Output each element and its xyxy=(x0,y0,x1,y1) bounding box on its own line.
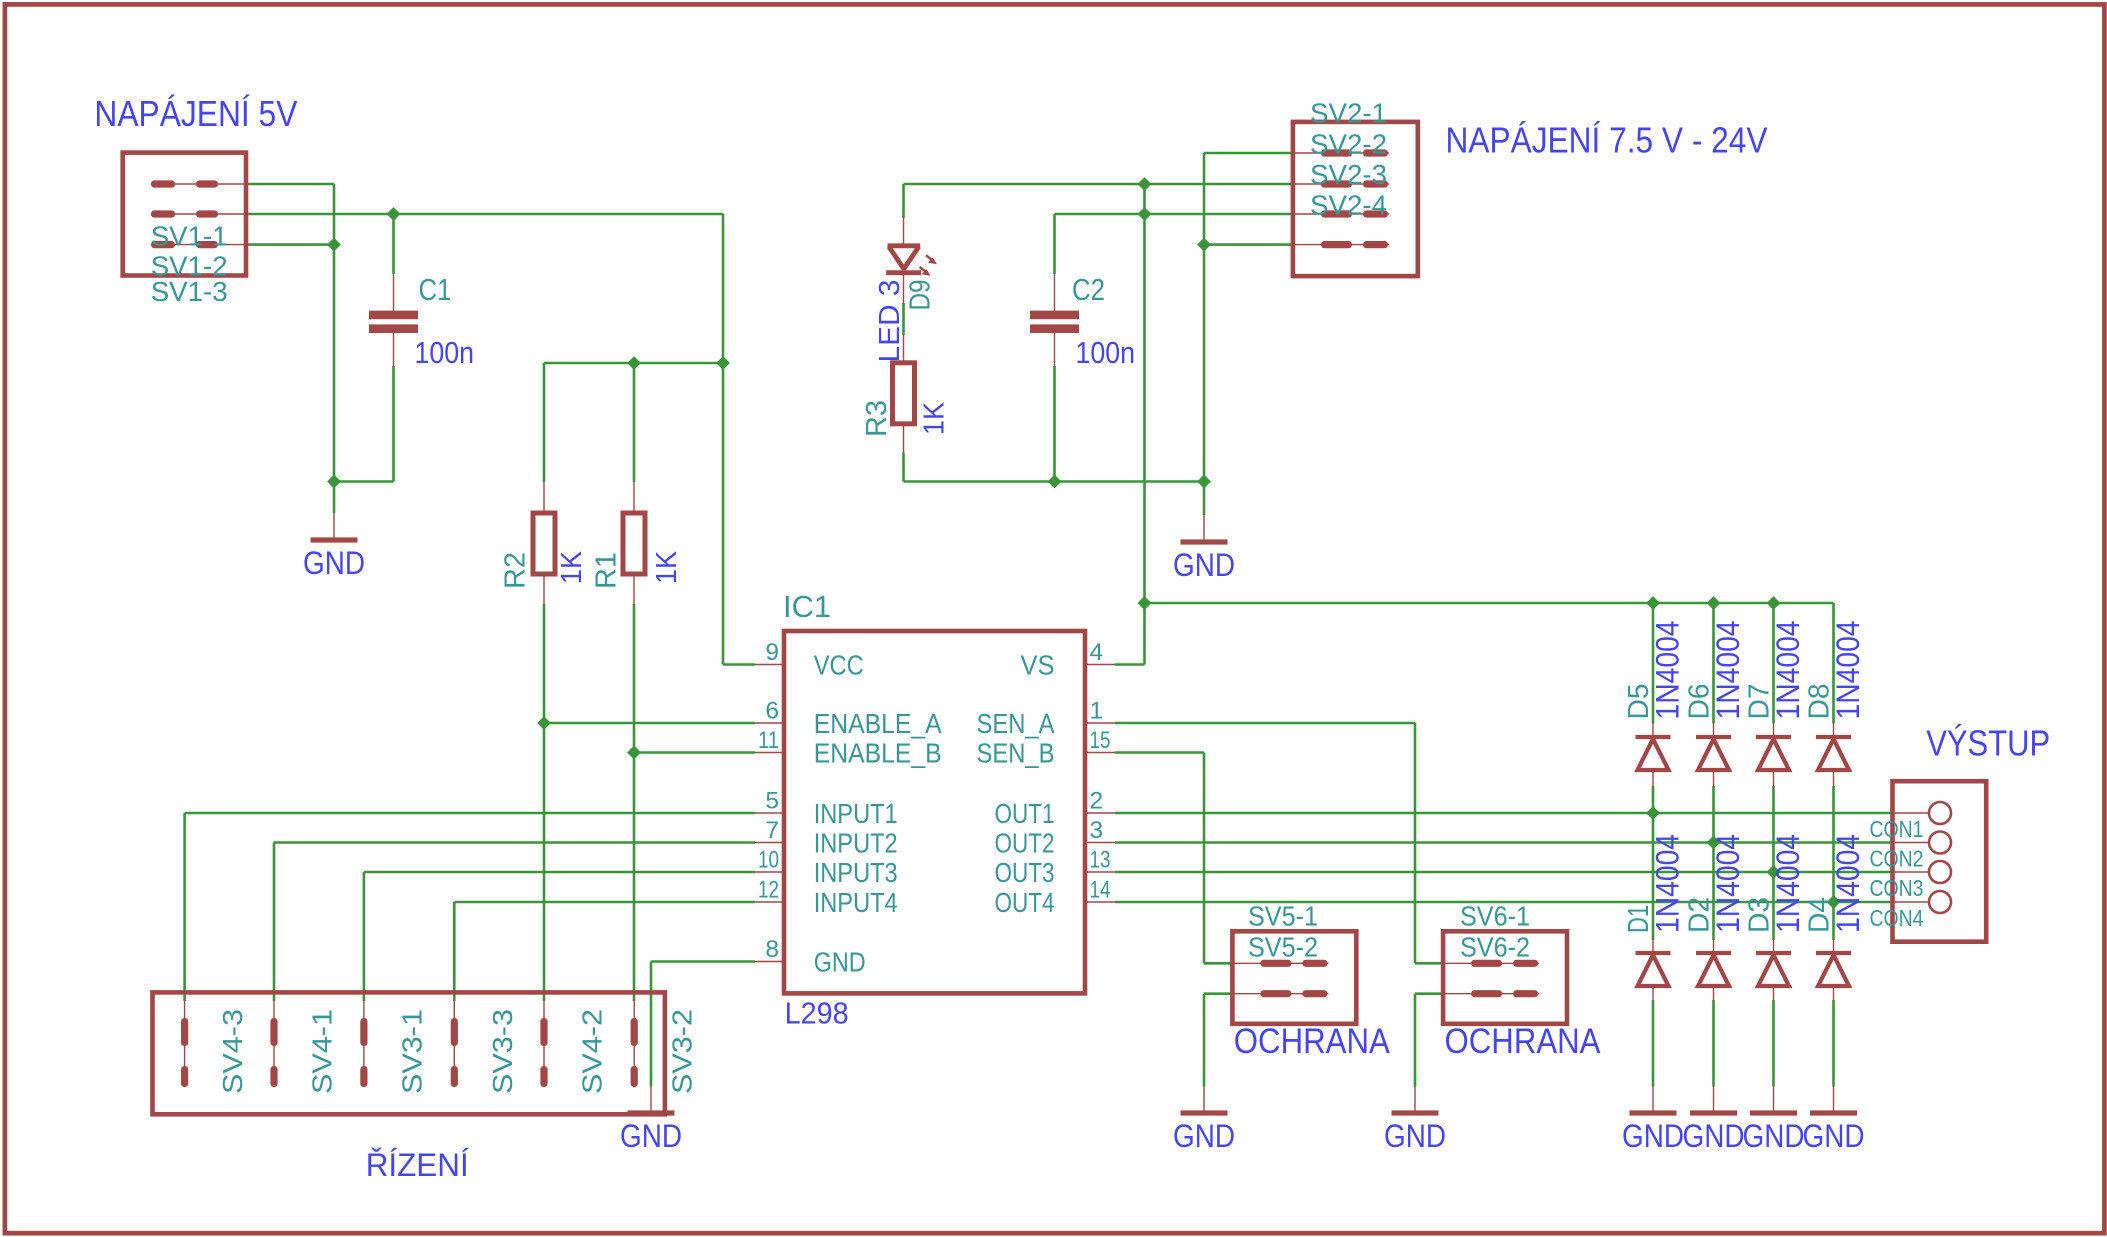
svg-text:GND: GND xyxy=(814,947,866,978)
svg-text:SV2-1: SV2-1 xyxy=(1310,98,1387,129)
svg-text:IC1: IC1 xyxy=(783,589,831,624)
svg-text:1N4004: 1N4004 xyxy=(1650,621,1686,720)
svg-text:GND: GND xyxy=(1384,1118,1446,1154)
svg-text:VCC: VCC xyxy=(814,650,864,681)
svg-text:13: 13 xyxy=(1090,847,1111,874)
svg-text:6: 6 xyxy=(765,698,779,725)
svg-text:D9: D9 xyxy=(905,280,937,311)
svg-text:GND: GND xyxy=(1173,1118,1235,1154)
svg-text:1N4004: 1N4004 xyxy=(1710,834,1746,933)
svg-text:OUT3: OUT3 xyxy=(995,857,1055,888)
svg-text:SV2-3: SV2-3 xyxy=(1310,159,1387,190)
svg-text:ENABLE_B: ENABLE_B xyxy=(814,738,942,769)
svg-text:L298: L298 xyxy=(785,997,849,1031)
svg-text:R3: R3 xyxy=(861,400,893,437)
svg-text:7: 7 xyxy=(765,817,779,844)
svg-text:OUT4: OUT4 xyxy=(995,887,1055,918)
svg-text:CON2: CON2 xyxy=(1870,846,1924,872)
svg-text:1: 1 xyxy=(1090,698,1104,725)
svg-text:NAPÁJENÍ 5V: NAPÁJENÍ 5V xyxy=(94,93,297,134)
svg-text:100n: 100n xyxy=(415,335,475,370)
svg-text:GND: GND xyxy=(1743,1118,1805,1154)
svg-text:SV1-3: SV1-3 xyxy=(151,276,228,307)
svg-text:C2: C2 xyxy=(1072,272,1105,307)
svg-text:1K: 1K xyxy=(919,401,951,435)
svg-text:GND: GND xyxy=(1622,1118,1684,1154)
svg-text:12: 12 xyxy=(758,877,779,904)
svg-text:INPUT4: INPUT4 xyxy=(814,887,898,918)
svg-text:SV4-1: SV4-1 xyxy=(307,1009,338,1094)
svg-text:NAPÁJENÍ 7.5 V - 24V: NAPÁJENÍ 7.5 V - 24V xyxy=(1446,120,1768,161)
svg-text:CON4: CON4 xyxy=(1870,905,1924,931)
svg-text:1N4004: 1N4004 xyxy=(1770,834,1806,933)
svg-text:GND: GND xyxy=(1173,547,1235,583)
svg-text:1N4004: 1N4004 xyxy=(1830,834,1866,933)
svg-text:C1: C1 xyxy=(419,272,452,307)
svg-text:5: 5 xyxy=(765,788,779,815)
svg-text:GND: GND xyxy=(303,545,365,581)
svg-text:OUT2: OUT2 xyxy=(995,828,1055,859)
svg-text:1N4004: 1N4004 xyxy=(1710,621,1746,720)
svg-text:INPUT1: INPUT1 xyxy=(814,798,898,829)
svg-text:1K: 1K xyxy=(651,550,683,584)
svg-text:CON3: CON3 xyxy=(1870,875,1924,901)
svg-text:SEN_B: SEN_B xyxy=(977,738,1055,769)
svg-text:SEN_A: SEN_A xyxy=(977,708,1055,739)
svg-text:11: 11 xyxy=(758,727,779,754)
svg-text:SV2-4: SV2-4 xyxy=(1310,190,1387,221)
svg-text:SV5-1: SV5-1 xyxy=(1248,901,1318,932)
svg-text:OCHRANA: OCHRANA xyxy=(1234,1022,1391,1061)
svg-text:ENABLE_A: ENABLE_A xyxy=(814,708,942,739)
svg-text:INPUT3: INPUT3 xyxy=(814,857,898,888)
svg-text:SV2-2: SV2-2 xyxy=(1310,129,1387,160)
svg-text:1N4004: 1N4004 xyxy=(1650,834,1686,933)
svg-text:SV3-3: SV3-3 xyxy=(487,1009,518,1094)
svg-text:1N4004: 1N4004 xyxy=(1830,621,1866,720)
svg-text:SV3-1: SV3-1 xyxy=(396,1009,427,1094)
svg-text:8: 8 xyxy=(765,936,779,963)
svg-text:ŘÍZENÍ: ŘÍZENÍ xyxy=(366,1147,469,1183)
svg-text:GND: GND xyxy=(1803,1118,1865,1154)
svg-text:SV4-2: SV4-2 xyxy=(577,1009,608,1094)
svg-text:4: 4 xyxy=(1090,639,1104,666)
svg-text:100n: 100n xyxy=(1076,335,1136,370)
svg-text:15: 15 xyxy=(1090,727,1111,754)
svg-text:GND: GND xyxy=(1683,1118,1745,1154)
svg-text:OCHRANA: OCHRANA xyxy=(1445,1022,1602,1061)
svg-text:SV6-1: SV6-1 xyxy=(1460,901,1530,932)
svg-text:INPUT2: INPUT2 xyxy=(814,828,898,859)
svg-text:2: 2 xyxy=(1090,788,1104,815)
svg-text:R2: R2 xyxy=(500,552,532,589)
svg-text:3: 3 xyxy=(1090,817,1104,844)
svg-text:OUT1: OUT1 xyxy=(995,798,1055,829)
svg-text:1K: 1K xyxy=(556,550,588,584)
svg-text:9: 9 xyxy=(765,639,779,666)
svg-text:CON1: CON1 xyxy=(1870,816,1924,842)
svg-text:VÝSTUP: VÝSTUP xyxy=(1926,723,2050,764)
svg-text:SV5-2: SV5-2 xyxy=(1248,932,1318,963)
svg-text:R1: R1 xyxy=(591,552,623,589)
svg-text:SV3-2: SV3-2 xyxy=(667,1009,698,1094)
svg-text:VS: VS xyxy=(1021,650,1055,681)
svg-text:1N4004: 1N4004 xyxy=(1770,621,1806,720)
svg-text:14: 14 xyxy=(1090,877,1111,904)
svg-text:LED 3: LED 3 xyxy=(874,280,906,363)
svg-text:SV4-3: SV4-3 xyxy=(217,1009,248,1094)
svg-text:GND: GND xyxy=(620,1118,682,1154)
svg-text:SV1-1: SV1-1 xyxy=(151,221,228,252)
svg-text:10: 10 xyxy=(758,847,779,874)
svg-text:SV6-2: SV6-2 xyxy=(1460,932,1530,963)
